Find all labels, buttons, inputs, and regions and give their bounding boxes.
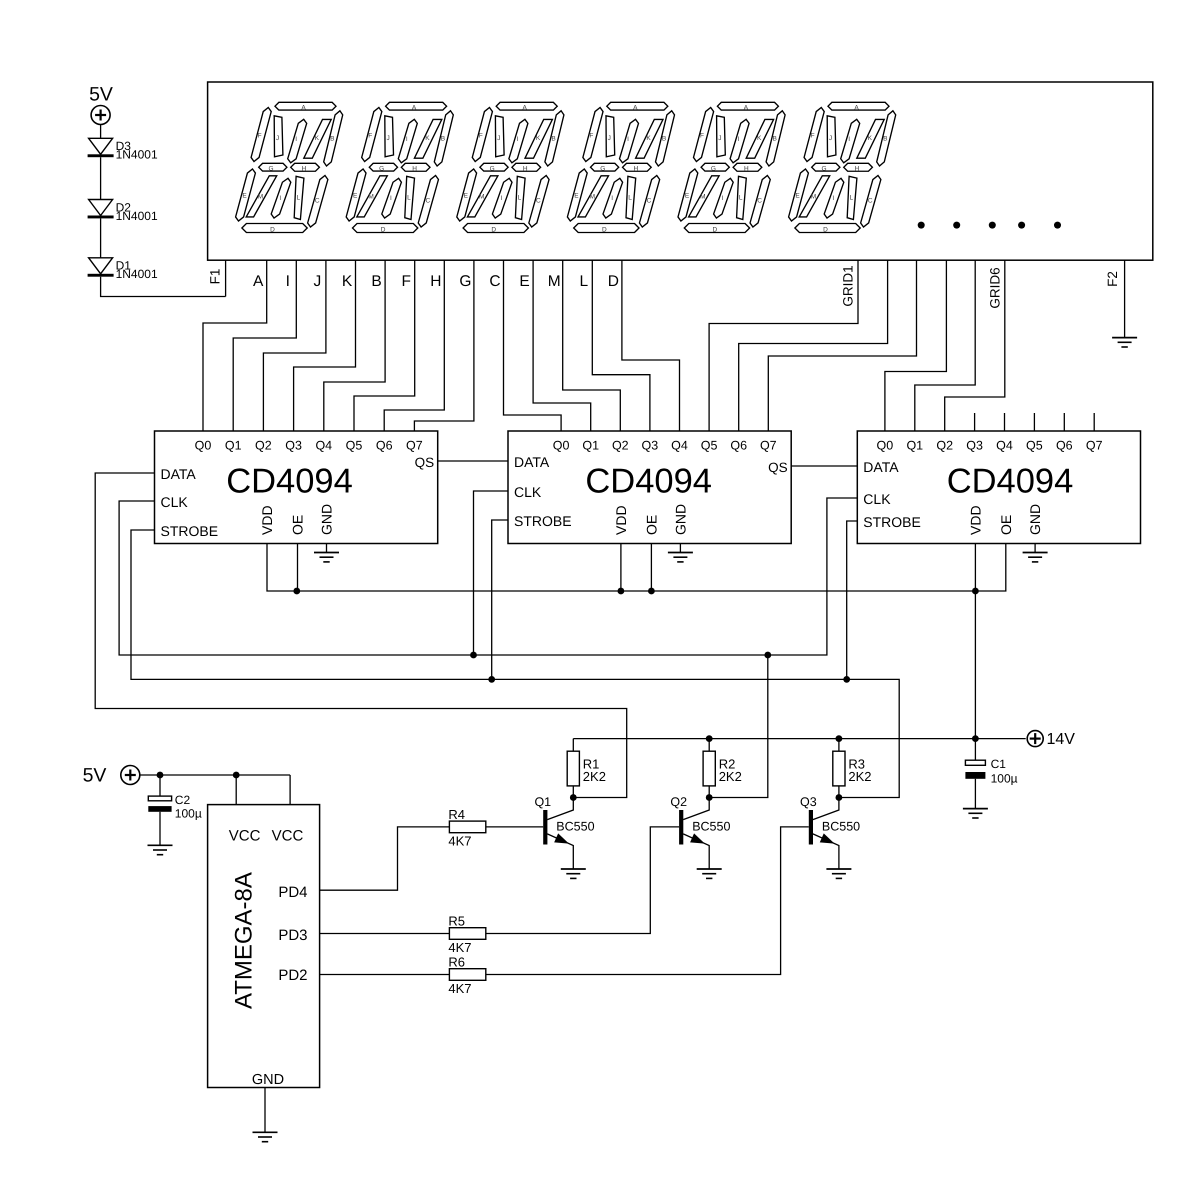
svg-text:G: G <box>459 273 471 290</box>
svg-text:PD3: PD3 <box>278 927 307 944</box>
svg-text:DATA: DATA <box>161 466 197 482</box>
svg-text:I: I <box>295 136 297 143</box>
svg-text:DATA: DATA <box>863 459 899 475</box>
svg-text:2K2: 2K2 <box>848 769 871 784</box>
svg-text:CLK: CLK <box>863 491 891 507</box>
svg-text:Q4: Q4 <box>671 439 688 453</box>
svg-text:CD4094: CD4094 <box>226 463 353 501</box>
svg-text:H: H <box>302 166 307 173</box>
svg-text:F: F <box>258 133 262 140</box>
svg-text:OE: OE <box>290 515 306 535</box>
svg-text:QS: QS <box>768 460 788 475</box>
svg-text:A: A <box>253 273 264 290</box>
svg-text:C: C <box>489 273 500 290</box>
svg-text:GRID6: GRID6 <box>988 267 1003 308</box>
svg-text:F1: F1 <box>208 269 223 285</box>
svg-text:GND: GND <box>319 504 335 535</box>
svg-text:B: B <box>371 273 381 290</box>
svg-text:PD2: PD2 <box>278 967 307 984</box>
svg-text:GND: GND <box>672 504 688 535</box>
svg-text:E: E <box>242 193 247 200</box>
svg-text:OE: OE <box>643 515 659 535</box>
svg-text:BC550: BC550 <box>556 820 594 834</box>
svg-text:E: E <box>519 273 529 290</box>
svg-text:R4: R4 <box>448 807 465 822</box>
svg-text:Q2: Q2 <box>670 795 687 809</box>
svg-text:BC550: BC550 <box>692 820 730 834</box>
svg-text:Q2: Q2 <box>936 439 953 453</box>
svg-text:C1: C1 <box>991 757 1007 771</box>
svg-text:M: M <box>258 194 263 201</box>
svg-text:Q7: Q7 <box>760 439 777 453</box>
svg-text:2K2: 2K2 <box>583 769 606 784</box>
svg-text:Q2: Q2 <box>612 439 629 453</box>
svg-text:CLK: CLK <box>514 484 542 500</box>
svg-text:Q3: Q3 <box>800 795 817 809</box>
svg-text:G: G <box>268 166 273 173</box>
svg-text:R5: R5 <box>448 914 465 929</box>
svg-text:F2: F2 <box>1105 271 1120 287</box>
svg-text:14V: 14V <box>1047 731 1076 748</box>
svg-text:C2: C2 <box>175 793 191 807</box>
svg-text:J: J <box>314 273 322 290</box>
svg-text:DATA: DATA <box>514 454 550 470</box>
svg-text:VCC: VCC <box>272 828 304 845</box>
svg-text:J: J <box>276 135 279 142</box>
svg-text:4K7: 4K7 <box>448 833 471 848</box>
svg-text:Q7: Q7 <box>1086 439 1103 453</box>
svg-text:Q5: Q5 <box>701 439 718 453</box>
svg-text:GND: GND <box>1027 504 1043 535</box>
svg-text:Q6: Q6 <box>1056 439 1073 453</box>
svg-text:D: D <box>270 227 275 234</box>
svg-text:QS: QS <box>415 455 435 470</box>
svg-text:Q7: Q7 <box>406 439 423 453</box>
svg-text:VDD: VDD <box>613 505 629 535</box>
svg-text:H: H <box>430 273 441 290</box>
svg-text:GND: GND <box>252 1072 284 1088</box>
svg-text:Q0: Q0 <box>553 439 570 453</box>
svg-text:5V: 5V <box>89 83 113 105</box>
svg-text:PD4: PD4 <box>278 884 307 901</box>
svg-text:K: K <box>342 273 353 290</box>
svg-text:2K2: 2K2 <box>719 769 742 784</box>
svg-text:Q1: Q1 <box>582 439 599 453</box>
svg-text:BC550: BC550 <box>822 820 860 834</box>
svg-text:VDD: VDD <box>259 505 275 535</box>
svg-text:Q3: Q3 <box>285 439 302 453</box>
svg-text:OE: OE <box>998 515 1014 535</box>
svg-text:Q6: Q6 <box>376 439 393 453</box>
svg-text:R6: R6 <box>448 955 465 970</box>
svg-text:STROBE: STROBE <box>863 514 921 530</box>
svg-text:4K7: 4K7 <box>448 940 471 955</box>
svg-text:Q0: Q0 <box>195 439 212 453</box>
svg-text:F: F <box>401 273 410 290</box>
svg-text:Q3: Q3 <box>966 439 983 453</box>
svg-text:I: I <box>279 195 281 202</box>
svg-text:A: A <box>301 104 306 111</box>
svg-text:B: B <box>330 136 334 143</box>
svg-text:CD4094: CD4094 <box>585 463 712 501</box>
svg-text:Q4: Q4 <box>315 439 332 453</box>
svg-text:GRID1: GRID1 <box>841 265 856 306</box>
svg-text:Q1: Q1 <box>225 439 242 453</box>
svg-text:ATMEGA-8A: ATMEGA-8A <box>231 872 258 1009</box>
svg-text:1N4001: 1N4001 <box>116 209 158 223</box>
svg-text:Q2: Q2 <box>255 439 272 453</box>
svg-text:CLK: CLK <box>161 494 189 510</box>
svg-text:Q5: Q5 <box>1026 439 1043 453</box>
svg-text:Q4: Q4 <box>996 439 1013 453</box>
svg-text:M: M <box>548 273 561 290</box>
svg-text:STROBE: STROBE <box>514 513 572 529</box>
svg-text:K: K <box>315 135 320 142</box>
svg-text:Q1: Q1 <box>906 439 923 453</box>
svg-text:L: L <box>296 195 300 202</box>
svg-text:Q1: Q1 <box>534 795 551 809</box>
svg-text:Q6: Q6 <box>730 439 747 453</box>
svg-text:Q5: Q5 <box>346 439 363 453</box>
svg-text:Q3: Q3 <box>642 439 659 453</box>
svg-text:100µ: 100µ <box>175 807 202 821</box>
svg-text:I: I <box>286 273 290 290</box>
svg-text:STROBE: STROBE <box>161 523 219 539</box>
svg-text:C: C <box>315 198 320 205</box>
svg-text:4K7: 4K7 <box>448 981 471 996</box>
svg-text:VCC: VCC <box>229 828 261 845</box>
svg-text:1N4001: 1N4001 <box>116 267 158 281</box>
svg-text:VDD: VDD <box>967 505 983 535</box>
svg-text:5V: 5V <box>83 764 107 786</box>
svg-text:L: L <box>579 273 588 290</box>
svg-text:CD4094: CD4094 <box>947 463 1074 501</box>
svg-text:1N4001: 1N4001 <box>116 148 158 162</box>
svg-text:Q0: Q0 <box>877 439 894 453</box>
svg-text:100µ: 100µ <box>991 772 1018 786</box>
svg-text:D: D <box>608 273 619 290</box>
